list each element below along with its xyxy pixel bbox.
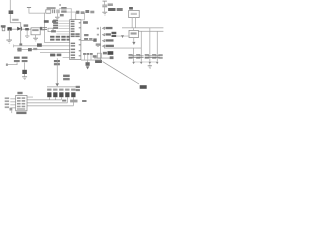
wire: [27, 96, 33, 99]
bus name row 2: [50, 39, 69, 41]
wire: [40, 29, 45, 32]
wire: [132, 38, 135, 42]
wire rail VCC: [122, 27, 163, 30]
title text row: [76, 10, 94, 14]
ground: [6, 40, 12, 44]
ground: [22, 76, 27, 80]
wire: [156, 31, 159, 62]
node label: [70, 100, 77, 103]
wire: [81, 39, 95, 42]
wire: [17, 48, 70, 51]
callout line: [103, 62, 139, 84]
net label: [93, 55, 97, 57]
connector label: [76, 86, 80, 91]
wire: [27, 99, 62, 102]
switch S1: [86, 62, 90, 66]
ground: [10, 108, 13, 113]
ground: [33, 35, 38, 42]
wire: [23, 62, 26, 69]
resistor R2: [37, 43, 42, 46]
wire: [132, 18, 136, 28]
capacitor C9 labels: [152, 54, 156, 59]
IC U3: [16, 95, 27, 110]
wire rail GND: [138, 30, 163, 33]
node mark: [59, 4, 61, 6]
GND label: [50, 54, 55, 57]
capacitor C6 labels: [129, 54, 133, 59]
diode D1: [7, 27, 11, 30]
wire: [43, 13, 46, 43]
wire: [27, 105, 74, 108]
connector J1 label: [9, 10, 14, 14]
wire: [56, 31, 69, 34]
wire: [81, 13, 85, 21]
wire: [140, 31, 143, 62]
wire: [9, 0, 12, 10]
node VIN label: [12, 19, 18, 21]
wire: [27, 102, 68, 105]
resistor R5: [97, 53, 101, 58]
connector J3: [129, 10, 140, 17]
arrow: [149, 62, 152, 64]
net flag 1: [103, 27, 113, 30]
net labels left of U1: [53, 20, 58, 29]
wire: [8, 29, 11, 39]
capacitor plates: [132, 56, 160, 58]
IC U3 value label: [16, 112, 26, 114]
IC U1: [70, 20, 81, 60]
node RX TX labels: [54, 60, 60, 65]
net flag 4: [103, 45, 114, 48]
net flag 3: [103, 39, 114, 42]
wire: [44, 41, 69, 44]
wire: [23, 74, 26, 76]
diode D2: [17, 27, 22, 31]
arrow: [86, 66, 89, 69]
wire: [132, 48, 135, 62]
capacitor C1: [25, 28, 29, 36]
node label: [82, 100, 86, 102]
arrow: [132, 42, 135, 45]
connector J2: [2, 28, 5, 31]
wire bottom rail: [47, 86, 78, 89]
wire: [10, 99, 15, 109]
capacitor C7 labels: [136, 54, 140, 59]
resistor R1: [48, 28, 53, 31]
wire: [61, 12, 76, 20]
wire: [94, 57, 112, 60]
capacitor C3 C4 value labels: [61, 7, 66, 13]
resistor R3: [17, 48, 21, 52]
IC U3 label: [17, 92, 22, 94]
node blob: [110, 56, 114, 59]
pin label: [52, 20, 56, 22]
transistor Q3: [59, 92, 63, 97]
capacitor C2 label: [40, 27, 42, 30]
net label: [95, 60, 102, 63]
wire: [6, 62, 18, 66]
IC U1 left pin names: [71, 21, 75, 59]
LED D3: [22, 70, 27, 74]
wire: [132, 28, 135, 30]
resistor R4: [28, 48, 32, 51]
ground: [102, 12, 107, 16]
ground: [148, 64, 152, 68]
wire: [9, 14, 12, 23]
wire: [81, 59, 101, 62]
net flag 2: [103, 33, 111, 36]
wire: [117, 35, 129, 38]
node label: [62, 100, 66, 102]
connector J3 label: [129, 7, 133, 10]
capacitor C4: [57, 10, 60, 14]
wire: [29, 12, 45, 15]
node label: [33, 48, 37, 50]
resistor network labels: [14, 57, 28, 63]
arrow: [140, 62, 143, 64]
ground: [25, 36, 29, 38]
wire: [10, 21, 21, 24]
power VCC bar: [27, 7, 31, 13]
net label: [96, 43, 101, 45]
VSS label: [57, 54, 62, 57]
ground: [55, 17, 60, 19]
net label: [103, 52, 107, 55]
arrow: [56, 83, 60, 86]
pin label: [44, 20, 49, 23]
pin labels: [5, 97, 9, 108]
transistor labels: [47, 89, 75, 91]
transistor Q2: [53, 92, 57, 97]
wire: [19, 22, 22, 43]
net labels left of U1 lower: [51, 30, 56, 32]
net label: [84, 34, 88, 36]
regulator U2: [31, 28, 40, 35]
pin label: [83, 21, 88, 24]
IC U1 right pin numbers: [79, 22, 81, 56]
net label: [84, 38, 92, 40]
capacitor C3: [52, 10, 55, 14]
pin numbers right of U1: [97, 28, 99, 47]
net name stack: [112, 32, 117, 37]
node junction: [93, 38, 96, 41]
wire: [58, 21, 69, 29]
wire: [86, 60, 89, 62]
net name dark: [108, 51, 114, 55]
crystal X1: [46, 10, 51, 13]
capacitor C8 labels: [145, 54, 149, 59]
transistor Q1: [47, 92, 51, 97]
wire: [12, 28, 31, 31]
transistor Q4: [65, 92, 69, 97]
wire: [149, 28, 152, 62]
arrow: [121, 35, 124, 38]
connector J2 label: [1, 25, 6, 27]
arrow: [156, 62, 159, 64]
arrow: [132, 62, 135, 64]
wire: [63, 56, 70, 59]
wire: [13, 45, 69, 48]
wire bus: [99, 27, 102, 60]
regulator U4: [129, 30, 138, 37]
capacitor C5: [102, 1, 107, 12]
capacitor C9 value: [158, 54, 162, 59]
transistor Q5: [71, 92, 75, 97]
node OSC label: [60, 14, 64, 16]
node junction: [19, 43, 22, 45]
wire: [56, 13, 59, 17]
wire: [134, 61, 158, 64]
wire: [104, 47, 141, 50]
capacitor C1 label: [24, 24, 29, 26]
wire: [59, 8, 72, 19]
wire: [49, 97, 74, 105]
capacitor C2: [42, 27, 47, 30]
capacitor C5 labels: [108, 3, 123, 11]
mid text rows: [63, 75, 70, 81]
crystal X1 label: [47, 7, 56, 9]
bus name row: [50, 36, 69, 38]
pin header P1: [83, 53, 93, 60]
label SW1: [140, 85, 147, 89]
IC U1 part number: [71, 33, 80, 37]
wire: [40, 51, 70, 54]
wire: [56, 58, 59, 83]
